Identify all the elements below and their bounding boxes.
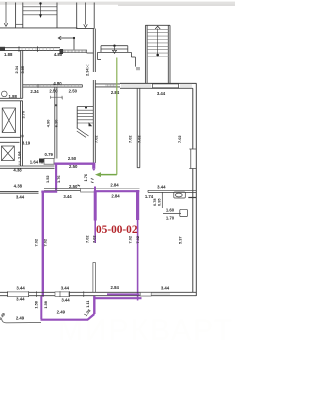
svg-text:1.52: 1.52 (45, 175, 50, 183)
svg-text:7.02: 7.02 (177, 135, 182, 143)
wall top of x94 (93, 3, 95, 29)
top band (0, 2, 235, 5)
stair1 walkline (40, 4, 42, 15)
svg-text:7.02: 7.02 (137, 135, 142, 143)
svg-text:2.49: 2.49 (16, 316, 25, 321)
svg-text:2.50: 2.50 (69, 164, 78, 169)
svg-text:1.88: 1.88 (4, 52, 13, 57)
wall (76, 3, 78, 30)
purple left V upper (55, 163, 57, 191)
window right (189, 149, 196, 169)
svg-text:7.02: 7.02 (94, 135, 99, 143)
shafts column wall (21, 101, 23, 166)
svg-text:4.38: 4.38 (14, 184, 23, 189)
svg-text:2.34: 2.34 (14, 65, 19, 73)
svg-text:5.37: 5.37 (177, 236, 182, 244)
stair2 dot (85, 107, 87, 109)
purple left V room (94, 187, 96, 191)
svg-text:1.58: 1.58 (33, 300, 38, 308)
left wall vertical double (21, 50, 23, 98)
arrow line (85, 3, 87, 25)
pier rects (8, 292, 29, 297)
ticks (8, 291, 84, 297)
stair2 arrow mark (89, 122, 93, 126)
wall (77, 28, 95, 30)
stair3 dot (156, 54, 159, 57)
stair1 rails (22, 3, 24, 28)
bottom wall (0, 292, 196, 295)
stair3 up arrow (155, 26, 160, 29)
right outer wall (193, 83, 197, 296)
svg-text:3.44: 3.44 (63, 194, 72, 199)
green arrow (101, 174, 117, 176)
wall h under shafts (0, 166, 55, 168)
svg-text:2.84: 2.84 (111, 90, 120, 95)
stair3 (145, 25, 170, 83)
elevator shaft 2 (2, 146, 15, 161)
wall h mid-left (23, 85, 83, 87)
purple top H (54, 163, 95, 165)
svg-text:1.11: 1.11 (85, 300, 90, 308)
step marks (19, 162, 21, 165)
stair1 bottom (0, 27, 77, 29)
dim ticks (19, 46, 38, 52)
shaft divider (0, 135, 23, 142)
svg-text:3.44: 3.44 (157, 184, 166, 189)
wall A hatch (106, 84, 115, 87)
entry arrow chevron (4, 23, 8, 26)
green line (116, 58, 118, 175)
svg-text:2.50: 2.50 (68, 156, 77, 161)
svg-text:7.02: 7.02 (91, 235, 96, 243)
stair1 treads (23, 6, 57, 8)
stair1 start dot (39, 2, 41, 4)
svg-text:2.50: 2.50 (69, 88, 78, 93)
svg-text:4.80: 4.80 (54, 52, 63, 57)
svg-text:3.19: 3.19 (22, 141, 31, 146)
wall h small room bottom (44, 189, 81, 191)
wall h left low (0, 98, 23, 101)
svg-text:2.34: 2.34 (85, 68, 90, 76)
svg-text:2.84: 2.84 (111, 285, 120, 290)
hatched vent band (60, 49, 87, 54)
purple left V lower (42, 191, 44, 297)
purple jog seg (41, 191, 57, 193)
dim ticks (91, 179, 94, 183)
svg-text:7.02: 7.02 (135, 235, 140, 243)
dim wall top-left (0, 48, 60, 51)
svg-text:6.10: 6.10 (54, 120, 59, 128)
wall B pier (153, 84, 179, 88)
svg-text:2.49: 2.49 (57, 309, 66, 314)
svg-text:1.74: 1.74 (145, 194, 154, 199)
stair2 middle (77, 107, 94, 138)
door rect (81, 188, 96, 192)
svg-text:3.44: 3.44 (161, 286, 170, 291)
wire (59, 37, 75, 39)
corridor wall x55-57 (55, 87, 57, 158)
svg-text:3.44: 3.44 (16, 194, 25, 199)
svg-text:0.95: 0.95 (156, 198, 161, 206)
svg-text:3.44: 3.44 (16, 285, 25, 290)
svg-text:3.44: 3.44 (61, 286, 70, 291)
svg-text:1.76: 1.76 (56, 175, 61, 183)
svg-text:7.02: 7.02 (128, 235, 133, 243)
tiny stub (61, 97, 63, 100)
bathroom (148, 190, 196, 216)
dim line (51, 96, 63, 98)
svg-text:4.90: 4.90 (45, 120, 50, 128)
purple bottom segs (94, 297, 141, 299)
svg-text:7.02: 7.02 (127, 135, 132, 143)
svg-text:3.70: 3.70 (20, 111, 25, 119)
svg-text:7.02: 7.02 (84, 235, 89, 243)
svg-text:4.38: 4.38 (13, 168, 22, 173)
purple room top H (96, 190, 139, 192)
circle symbol (2, 91, 8, 97)
step dark rect (39, 159, 44, 163)
svg-text:2.84: 2.84 (110, 182, 119, 187)
hinge mark (55, 104, 58, 106)
svg-text:7.02: 7.02 (42, 238, 47, 246)
junction dot (73, 37, 75, 39)
svg-text:2.84: 2.84 (111, 194, 120, 199)
svg-text:1.70: 1.70 (166, 216, 175, 221)
wall B outer top (120, 83, 197, 88)
purple thick door wall (92, 165, 95, 169)
radiator mark (188, 197, 196, 199)
x mark (86, 65, 89, 69)
wall A (95, 84, 120, 87)
step white rect (44, 159, 54, 165)
elevator shaft 1 (2, 108, 15, 133)
pier box right (140, 292, 151, 296)
wire arrow left (5, 2, 7, 24)
svg-text:7.02: 7.02 (33, 238, 38, 246)
left room top wall (0, 191, 39, 193)
svg-text:0.79: 0.79 (45, 152, 54, 157)
stair1 arrow (39, 14, 42, 18)
middle wall x137-140 (137, 88, 140, 167)
wall B hatch (122, 83, 191, 88)
svg-text:1.58: 1.58 (43, 300, 48, 308)
inner wall stub (93, 262, 96, 292)
door arrow chevron (84, 24, 88, 27)
svg-text:3.44: 3.44 (61, 298, 70, 303)
wall line above purple (95, 188, 139, 190)
svg-text:3.85: 3.85 (20, 65, 25, 73)
purple right V room thick (136, 190, 139, 220)
svg-text:1.64: 1.64 (16, 151, 21, 159)
svg-text:1.76: 1.76 (83, 173, 88, 181)
svg-text:3.44: 3.44 (16, 297, 25, 302)
svg-text:1.60: 1.60 (166, 207, 175, 212)
dot (113, 45, 115, 47)
svg-text:3.44: 3.44 (157, 91, 166, 96)
grey dim line bottom left (2, 319, 42, 323)
svg-text:2.50: 2.50 (69, 184, 78, 189)
arrow (114, 47, 116, 51)
L wall to main wall (87, 52, 94, 54)
svg-text:05-00-02: 05-00-02 (96, 224, 138, 236)
entry porch steps (98, 46, 140, 71)
main center wall vertical (93, 29, 95, 163)
wall (15, 3, 17, 28)
svg-text:2.34: 2.34 (30, 89, 39, 94)
